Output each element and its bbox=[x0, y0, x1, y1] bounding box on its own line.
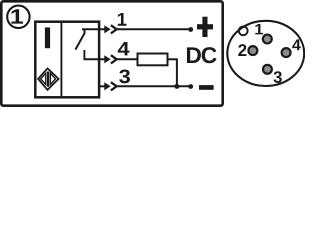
wire 4 to load bbox=[117, 58, 138, 60]
wire from load to corner bbox=[168, 58, 177, 60]
wire 1 socket chevron bbox=[111, 25, 117, 33]
switch stub from wire 1 bbox=[84, 29, 86, 34]
pin 2 label bbox=[238, 44, 246, 56]
junction dot bbox=[174, 84, 179, 89]
wire 3 plug arrow bbox=[104, 82, 110, 90]
wire 3 socket chevron bbox=[111, 82, 117, 90]
sensor internal divider bbox=[60, 22, 62, 98]
plus terminal bbox=[197, 17, 213, 37]
DC label bbox=[187, 47, 217, 63]
minus terminal bbox=[199, 85, 214, 90]
pin 3 bbox=[263, 65, 272, 74]
vertical drop to minus rail bbox=[176, 58, 178, 86]
sensing element black bar bbox=[45, 27, 50, 48]
wire 4 socket chevron bbox=[111, 55, 117, 63]
pin 1 bbox=[263, 35, 272, 44]
wire 1 inside box bbox=[82, 28, 105, 30]
inductive sensor diamond symbol bbox=[38, 68, 59, 89]
label 1 bbox=[118, 13, 127, 26]
connector face outline bbox=[227, 21, 304, 86]
wire 1 to plus terminal bbox=[117, 28, 189, 30]
wire 1 plug arrow bbox=[104, 25, 110, 33]
pin 4 bbox=[282, 48, 291, 57]
sensor body box bbox=[35, 22, 99, 98]
wire 3 end dot bbox=[188, 84, 193, 89]
keyway loop on rim bbox=[239, 26, 248, 35]
pin 4 label bbox=[292, 39, 300, 50]
wire 4 inside box bbox=[84, 58, 105, 60]
wire 3 to minus terminal bbox=[117, 85, 189, 87]
pin 3 label bbox=[274, 71, 282, 83]
pin 1 label bbox=[255, 24, 263, 34]
label 3 bbox=[119, 69, 130, 83]
load resistor bbox=[138, 54, 168, 66]
pin 2 bbox=[248, 46, 257, 55]
switch fixed contact riser bbox=[83, 50, 85, 59]
wire 4 plug arrow bbox=[104, 55, 110, 63]
variant digit 1 bbox=[11, 9, 23, 23]
variant marker circled 1 bbox=[7, 6, 29, 28]
wire 3 from box bbox=[99, 85, 105, 87]
wire 1 end dot bbox=[188, 27, 193, 32]
left panel border frame bbox=[1, 1, 222, 105]
label 4 bbox=[118, 42, 130, 55]
switch blade (open contact) bbox=[75, 33, 84, 49]
